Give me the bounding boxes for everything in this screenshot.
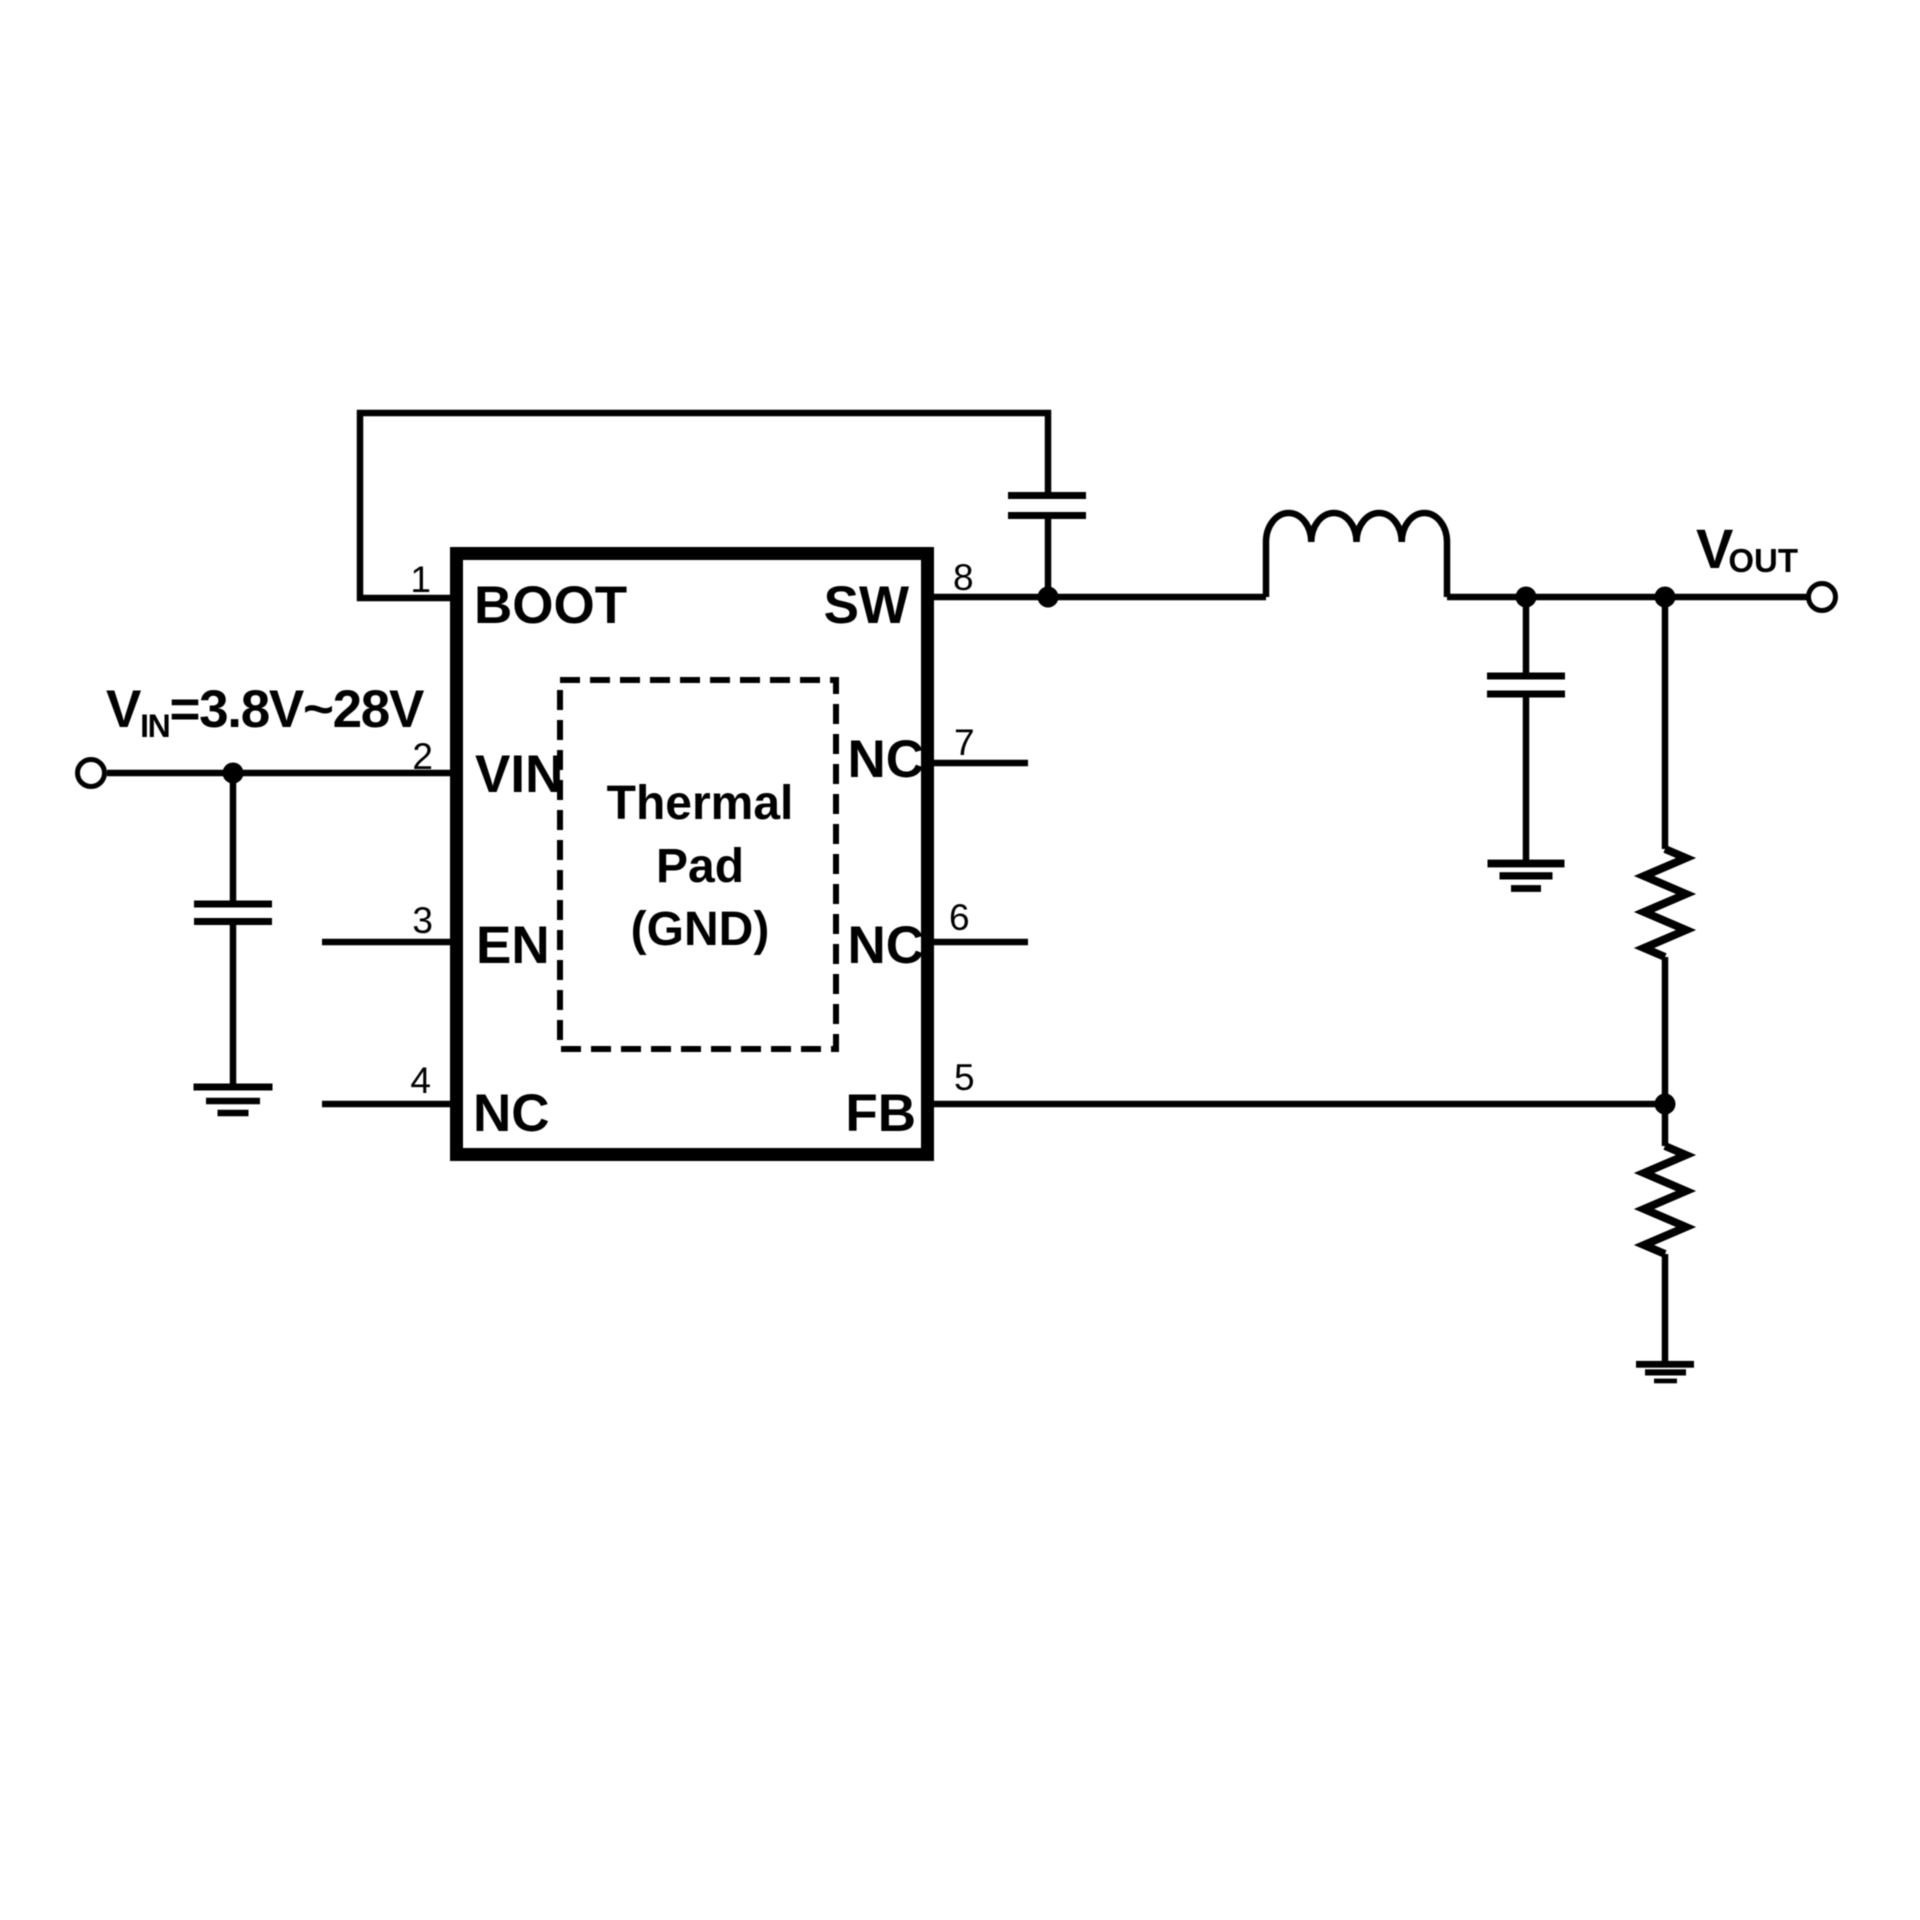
wire input capacitor to ground bbox=[230, 925, 237, 1084]
wire FB node to resistor R2 bbox=[1662, 1104, 1669, 1146]
wire output capacitor to ground bbox=[1523, 697, 1530, 860]
terminal VIN input bbox=[78, 760, 105, 787]
wire VOUT node down to resistor R1 bbox=[1662, 597, 1669, 849]
svg-text:4: 4 bbox=[410, 1060, 431, 1101]
resistor R2 bbox=[1644, 1146, 1686, 1254]
ground output capacitor bbox=[1488, 860, 1565, 892]
wire inductor to VOUT terminal bbox=[1447, 594, 1807, 601]
svg-text:VOUT: VOUT bbox=[1696, 517, 1798, 580]
junction output capacitor node bbox=[1516, 587, 1537, 608]
wire NC stub pin 6 bbox=[934, 939, 1028, 946]
svg-text:NC: NC bbox=[473, 1084, 550, 1143]
junction input node bbox=[223, 763, 244, 784]
svg-text:7: 7 bbox=[954, 722, 975, 763]
capacitor C3 output: top plate bbox=[1487, 673, 1565, 680]
svg-text:EN: EN bbox=[476, 916, 550, 975]
svg-text:5: 5 bbox=[954, 1057, 975, 1098]
wire EN stub pin 3 bbox=[322, 939, 450, 946]
svg-text:1: 1 bbox=[410, 559, 431, 600]
wire BOOT pin1 to bootstrap capacitor top (loop) bbox=[360, 413, 1048, 598]
terminal VOUT bbox=[1809, 584, 1836, 611]
wire resistor R2 to ground bbox=[1662, 1254, 1669, 1361]
inductor L1 bbox=[1266, 513, 1447, 597]
capacitor C1 bootstrap: top plate bbox=[1008, 492, 1086, 499]
IC U1 body bbox=[457, 554, 928, 1155]
ground input capacitor bbox=[194, 1084, 273, 1117]
svg-text:BOOT: BOOT bbox=[474, 576, 627, 635]
wire bootstrap capacitor to SW node bbox=[1045, 519, 1052, 597]
ground resistor R2 bbox=[1636, 1361, 1694, 1383]
wire NC stub pin 7 bbox=[934, 760, 1028, 767]
capacitor C2 input: top plate bbox=[194, 901, 272, 908]
resistor R1 bbox=[1644, 849, 1686, 957]
capacitor C2 input: bottom plate bbox=[194, 918, 272, 925]
svg-text:2: 2 bbox=[412, 736, 433, 777]
svg-text:VIN=3.8V~28V: VIN=3.8V~28V bbox=[106, 680, 424, 744]
svg-text:FB: FB bbox=[845, 1084, 916, 1143]
wire resistor R1 to FB node bbox=[1662, 957, 1669, 1104]
svg-text:3: 3 bbox=[412, 900, 433, 941]
capacitor C1 bootstrap: bottom plate bbox=[1008, 512, 1086, 519]
capacitor C3 output: bottom plate bbox=[1487, 691, 1565, 698]
svg-text:Pad: Pad bbox=[656, 840, 744, 893]
svg-text:VIN: VIN bbox=[475, 745, 563, 804]
wire FB pin 5 to feedback node bbox=[934, 1101, 1665, 1108]
wire VIN terminal to pin 2 bbox=[107, 770, 450, 777]
svg-text:NC: NC bbox=[847, 730, 924, 789]
wire SW pin 8 to inductor bbox=[934, 594, 1266, 601]
svg-text:SW: SW bbox=[824, 576, 909, 635]
wire output node down to output capacitor bbox=[1523, 597, 1530, 673]
svg-text:Thermal: Thermal bbox=[607, 777, 794, 830]
svg-text:6: 6 bbox=[949, 897, 970, 938]
wire input node down to input capacitor bbox=[230, 773, 237, 901]
junction VOUT/R1 node bbox=[1655, 587, 1676, 608]
svg-text:NC: NC bbox=[847, 916, 924, 975]
svg-text:(GND): (GND) bbox=[631, 903, 770, 956]
junction FB node bbox=[1655, 1094, 1676, 1115]
junction SW/bootstrap node bbox=[1038, 587, 1059, 608]
svg-text:8: 8 bbox=[953, 557, 974, 598]
wire NC stub pin 4 bbox=[322, 1101, 450, 1108]
thermal pad (GND) dashed box bbox=[560, 680, 836, 1049]
